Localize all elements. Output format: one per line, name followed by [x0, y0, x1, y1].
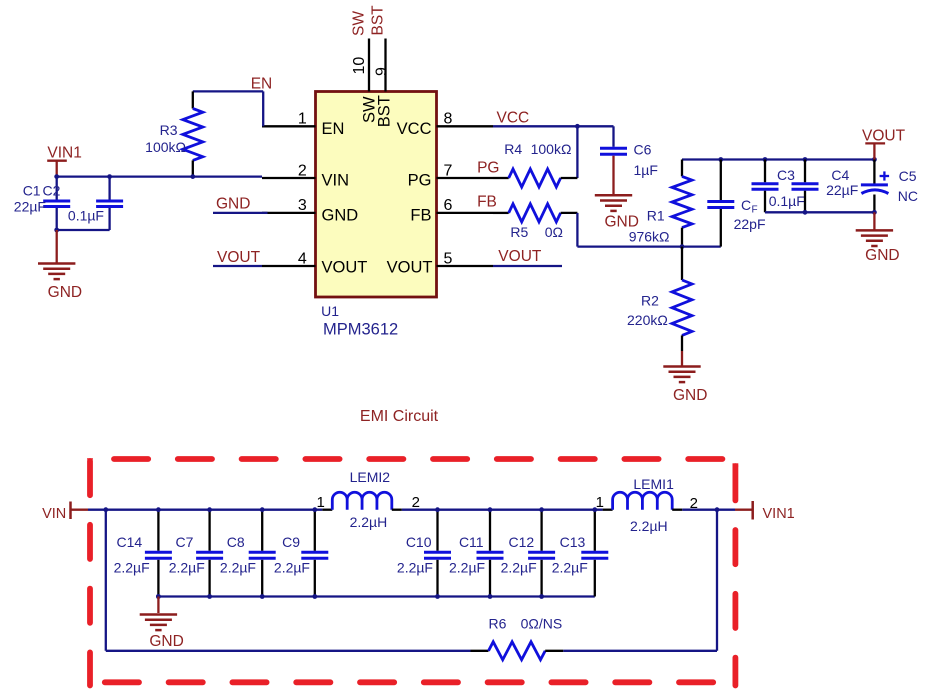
svg-text:GND: GND	[322, 206, 359, 224]
svg-text:C11: C11	[459, 534, 484, 550]
svg-text:0Ω/NS: 0Ω/NS	[521, 615, 563, 631]
svg-text:9: 9	[374, 67, 391, 76]
svg-text:PG: PG	[408, 171, 432, 189]
svg-text:VCC: VCC	[497, 110, 530, 127]
svg-text:VOUT: VOUT	[322, 258, 368, 276]
svg-text:EN: EN	[322, 120, 345, 138]
svg-text:R5: R5	[510, 224, 528, 240]
svg-text:2: 2	[298, 162, 307, 179]
svg-text:GND: GND	[865, 247, 899, 264]
svg-text:2.2µF: 2.2µF	[449, 560, 485, 576]
svg-text:VOUT: VOUT	[217, 249, 261, 266]
svg-text:22µF: 22µF	[826, 182, 858, 198]
svg-text:8: 8	[444, 111, 453, 128]
svg-text:VIN1: VIN1	[763, 506, 795, 522]
svg-text:VIN: VIN	[322, 171, 350, 189]
svg-text:C7: C7	[175, 534, 193, 550]
svg-text:2.2µH: 2.2µH	[630, 518, 668, 534]
svg-text:EMI Circuit: EMI Circuit	[360, 408, 439, 425]
svg-text:FB: FB	[410, 206, 431, 224]
svg-text:C2: C2	[43, 183, 61, 199]
svg-text:0.1µF: 0.1µF	[769, 193, 805, 209]
svg-text:C13: C13	[560, 534, 586, 550]
svg-text:C3: C3	[777, 167, 795, 183]
svg-text:FB: FB	[477, 194, 497, 211]
svg-text:0Ω: 0Ω	[545, 224, 563, 240]
svg-text:BST: BST	[376, 95, 394, 127]
svg-text:SW: SW	[351, 11, 368, 36]
svg-text:R3: R3	[160, 122, 178, 138]
svg-text:VOUT: VOUT	[498, 248, 542, 265]
svg-text:976kΩ: 976kΩ	[629, 229, 670, 245]
svg-text:2: 2	[690, 495, 698, 512]
svg-text:R6: R6	[489, 615, 507, 631]
svg-text:2.2µF: 2.2µF	[114, 560, 150, 576]
svg-text:MPM3612: MPM3612	[323, 320, 398, 338]
svg-text:100kΩ: 100kΩ	[145, 139, 186, 155]
svg-text:1: 1	[298, 111, 307, 128]
svg-text:3: 3	[298, 197, 307, 214]
svg-text:100kΩ: 100kΩ	[531, 141, 572, 157]
svg-text:GND: GND	[216, 196, 250, 213]
svg-text:10: 10	[351, 57, 368, 75]
svg-text:GND: GND	[673, 387, 707, 404]
svg-text:1: 1	[596, 494, 604, 511]
svg-text:4: 4	[298, 250, 307, 267]
svg-text:VIN: VIN	[42, 506, 66, 522]
svg-text:F: F	[752, 205, 758, 216]
svg-text:PG: PG	[477, 159, 499, 176]
svg-text:C5: C5	[899, 168, 917, 184]
svg-text:C1: C1	[23, 183, 41, 199]
svg-text:C9: C9	[282, 534, 300, 550]
svg-text:GND: GND	[149, 633, 183, 650]
svg-text:U1: U1	[321, 303, 339, 319]
svg-text:C4: C4	[831, 167, 849, 183]
svg-text:LEMI1: LEMI1	[633, 476, 674, 492]
svg-text:GND: GND	[48, 284, 82, 301]
svg-text:220kΩ: 220kΩ	[627, 312, 668, 328]
svg-text:VOUT: VOUT	[387, 258, 433, 276]
svg-text:7: 7	[444, 162, 453, 179]
svg-text:NC: NC	[898, 188, 918, 204]
svg-text:6: 6	[444, 197, 453, 214]
svg-text:C: C	[741, 197, 751, 213]
svg-text:22µF: 22µF	[14, 199, 46, 215]
svg-text:2.2µF: 2.2µF	[274, 560, 310, 576]
svg-text:1: 1	[316, 494, 324, 511]
svg-text:2.2µF: 2.2µF	[220, 560, 256, 576]
svg-text:0.1µF: 0.1µF	[68, 208, 104, 224]
svg-text:C8: C8	[227, 534, 245, 550]
svg-text:VCC: VCC	[397, 120, 432, 138]
svg-text:2.2µH: 2.2µH	[350, 514, 388, 530]
svg-text:2.2µF: 2.2µF	[501, 560, 537, 576]
svg-text:22pF: 22pF	[734, 216, 766, 232]
svg-text:C14: C14	[117, 534, 143, 550]
svg-text:VIN1: VIN1	[47, 144, 81, 161]
svg-text:2.2µF: 2.2µF	[169, 560, 205, 576]
svg-text:5: 5	[444, 250, 453, 267]
svg-text:R2: R2	[641, 293, 659, 309]
svg-text:2: 2	[412, 494, 420, 511]
svg-text:R4: R4	[504, 141, 522, 157]
svg-text:LEMI2: LEMI2	[350, 469, 391, 485]
svg-text:VOUT: VOUT	[862, 127, 906, 144]
svg-text:R1: R1	[647, 208, 665, 224]
svg-text:EN: EN	[251, 76, 273, 93]
svg-text:1µF: 1µF	[634, 162, 658, 178]
svg-text:2.2µF: 2.2µF	[552, 560, 588, 576]
svg-text:2.2µF: 2.2µF	[397, 560, 433, 576]
svg-text:C10: C10	[406, 534, 432, 550]
svg-text:BST: BST	[370, 5, 387, 36]
svg-text:C6: C6	[634, 142, 652, 158]
svg-text:C12: C12	[509, 534, 535, 550]
